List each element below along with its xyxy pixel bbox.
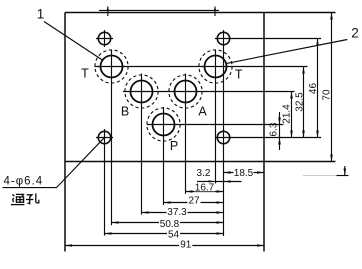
svg-text:T: T [235,67,243,81]
top small dimension line [99,9,219,11]
dimension 32.5 line [303,67,305,138]
port P dashed circle [147,108,180,141]
top dimension tick left [107,6,110,16]
bolt hole bottom-left vertical (extension down to 54 dim) [104,129,106,236]
dimension 91 line [65,245,264,247]
dimension 16.7 line [186,191,224,193]
svg-text:4-φ6.4: 4-φ6.4 [4,175,44,187]
bolt hole top-right cross horizontal (extended right for 46 dim) [215,38,321,40]
bolt column right vertical datum line (through both right bolts, down to 54 dim) [223,30,225,236]
port T right solid circle [205,56,227,78]
bolt hole top-left cross [96,30,113,47]
plate outline left edge (extended down as 91 extension line) [64,13,66,252]
svg-text:54: 54 [168,229,180,240]
port P solid circle [153,114,175,136]
leader line for 4-phi6.4 note [3,138,104,187]
svg-text:91: 91 [180,240,192,251]
dimension 54 line [105,233,224,235]
vertical centerline T right port (extension to 3.2 dim) [215,50,217,184]
svg-text:1: 1 [37,7,45,22]
dim text 18.5 [234,168,254,179]
port B dashed circle [125,75,158,108]
dimension 37.3 line [142,212,224,214]
bottom bolt row datum line (extended right for vertical dims) [216,137,322,139]
bolt hole bottom-right circle [217,131,229,143]
svg-text:3.2: 3.2 [197,168,211,179]
port T right dashed circle [199,50,232,83]
hanzi tong (通) [11,194,25,204]
vertical centerline A port (extension to 16.7 dim) [185,74,187,194]
plate outline top edge (extended right for 70 dim) [65,12,336,14]
bolt hole bottom-left cross horizontal [96,137,113,139]
dimension 70 line [331,13,333,162]
svg-text:27: 27 [188,196,200,207]
svg-text:50.8: 50.8 [160,219,180,230]
top dimension tick right [214,6,217,16]
centerline through T ports (extended right for 32.5 dim) [95,66,308,68]
vertical centerline B port (extension to 37.3 dim) [141,74,143,215]
svg-text:P: P [170,139,178,153]
bolt hole bottom-left circle [98,131,110,143]
svg-text:37.3: 37.3 [167,207,187,218]
port A solid circle [175,81,197,103]
centerline through B and A ports (extended right for 21.4 dim) [123,91,295,93]
centerline through P port (extended right for 6.3 dim) [147,124,284,126]
port A dashed circle [169,75,202,108]
cropped partial dimension bottom right [303,175,337,177]
dimension 21.4 line [291,92,293,138]
dimension 18.5 line [224,172,265,174]
dimension 27 line [164,202,224,204]
dimension 3.2 line (arrows outside) [197,181,242,183]
port T left dashed circle [95,50,128,83]
plate outline right edge (extended down as 91/18.5 extension line) [263,13,265,252]
dimension 46 line [317,39,319,138]
dim text 37.3 [167,207,188,218]
dim text 91 [179,239,192,250]
svg-text:18.5: 18.5 [234,168,254,179]
svg-text:6.3: 6.3 [269,122,280,136]
dim text 16.7 [194,182,215,193]
bolt hole top-left circle [98,32,110,44]
svg-text:70: 70 [322,89,333,101]
port T left solid circle [101,56,123,78]
vertical centerline P port (extension to 27 dim) [163,107,165,205]
leader line for label 1 [44,22,103,61]
port B solid circle [131,81,153,103]
hanzi kong (孔) [26,193,39,203]
dimension 50.8 line [112,222,224,224]
svg-text:46: 46 [308,83,319,95]
dimension 6.3 line (arrows outside) [279,112,281,150]
svg-text:32.5: 32.5 [295,92,306,112]
svg-text:21.4: 21.4 [282,104,293,124]
dim text 54 [167,229,180,240]
plate outline bottom edge (extended right for 70 dim) [65,161,336,163]
svg-text:B: B [121,105,129,119]
svg-text:2: 2 [351,26,359,41]
vertical centerline T left port (extension to 50.8 dim) [111,50,113,226]
svg-text:T: T [81,67,89,81]
bolt hole top-right circle [217,32,229,44]
svg-text:16.7: 16.7 [195,183,215,194]
dim text 27 [188,196,201,207]
dim text 50.8 [159,219,180,230]
svg-text:A: A [198,105,207,119]
leader line for label 2 [227,40,348,64]
